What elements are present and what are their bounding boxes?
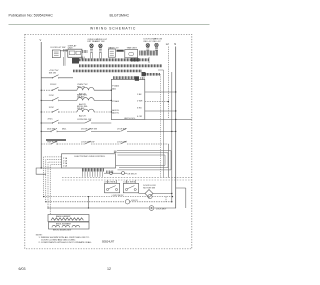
svg-text:BROIL ELEMENT: BROIL ELEMENT	[56, 224, 72, 226]
svg-text:LGT SW: LGT SW	[97, 41, 105, 43]
svg-text:WIRING SCHEMATIC: WIRING SCHEMATIC	[90, 27, 136, 31]
svg-text:LOCK SW 2W: LOCK SW 2W	[81, 141, 94, 143]
svg-text:2. COMPONENTS WITH A DO NOT: 2. COMPONENTS WITH A DO NOT OPERATE IN A…	[39, 241, 93, 244]
svg-text:2 WH: 2 WH	[137, 101, 143, 103]
svg-text:LOCK SW: LOCK SW	[117, 141, 127, 143]
svg-text:P2 A04: P2 A04	[112, 100, 120, 103]
svg-text:Publication No: 5995424HC: Publication No: 5995424HC	[9, 14, 54, 18]
svg-text:3Y0C: 3Y0C	[49, 107, 55, 109]
svg-text:4Y0C: 4Y0C	[48, 118, 54, 120]
svg-text:2W A03: 2W A03	[77, 107, 85, 110]
svg-text:LOCK MOT: LOCK MOT	[156, 208, 167, 210]
svg-text:A02 RL: A02 RL	[112, 112, 120, 115]
svg-text:6/03: 6/03	[19, 267, 26, 271]
svg-text:LOCK SW 2V: LOCK SW 2V	[112, 195, 124, 197]
svg-text:DOOR LTCH SW: DOOR LTCH SW	[81, 129, 97, 131]
svg-text:IND LGT: IND LGT	[153, 41, 162, 43]
svg-text:P1 A06: P1 A06	[112, 85, 120, 88]
svg-text:ELECTRONIC OVEN CONTROL: ELECTRONIC OVEN CONTROL	[75, 156, 106, 158]
svg-text:1 BK: 1 BK	[137, 94, 142, 96]
svg-text:4 OR: 4 OR	[137, 116, 142, 118]
svg-text:N: N	[174, 42, 176, 46]
svg-text:TMP FUSE: TMP FUSE	[47, 141, 58, 143]
svg-text:BLGT3MHC: BLGT3MHC	[110, 14, 130, 18]
svg-text:DOOR LGT SW: DOOR LGT SW	[51, 47, 66, 49]
svg-text:REL 2W: REL 2W	[77, 86, 85, 88]
svg-text:IND LGT: IND LGT	[144, 41, 153, 43]
svg-text:2Y0C: 2Y0C	[49, 95, 55, 97]
svg-text:LTCH SW: LTCH SW	[117, 129, 126, 131]
svg-text:DR SW 2V: DR SW 2V	[128, 173, 138, 175]
svg-text:BAKE ELEMENT: BAKE ELEMENT	[56, 215, 71, 218]
svg-text:L2: L2	[166, 42, 169, 46]
svg-text:SW 2W: SW 2W	[49, 73, 56, 75]
svg-text:12V0C: 12V0C	[50, 84, 57, 86]
svg-text:2W A05: 2W A05	[77, 96, 85, 99]
svg-text:LCH 2V: LCH 2V	[131, 200, 138, 202]
svg-text:A02 2V: A02 2V	[79, 114, 86, 117]
svg-text:CONV REL 2W: CONV REL 2W	[77, 119, 91, 121]
svg-text:LATCH SOL: LATCH SOL	[124, 117, 136, 120]
svg-text:3 RD: 3 RD	[137, 107, 142, 109]
svg-text:BROIL 3000W 240V: BROIL 3000W 240V	[53, 230, 72, 232]
svg-text:A03 RL: A03 RL	[112, 109, 120, 112]
svg-text:12: 12	[107, 267, 111, 271]
svg-text:DLB SW: DLB SW	[47, 129, 55, 131]
svg-text:V: V	[40, 38, 42, 42]
svg-text:SEB24LRT: SEB24LRT	[102, 241, 115, 244]
svg-text:NOTE:: NOTE:	[36, 234, 43, 236]
